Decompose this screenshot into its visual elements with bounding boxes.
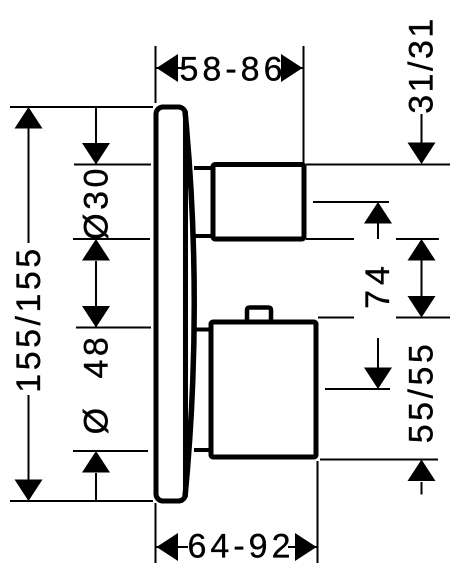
svg-text:Ø30: Ø30 — [78, 165, 116, 240]
svg-text:31/31: 31/31 — [403, 16, 441, 114]
svg-text:64-92: 64-92 — [188, 528, 295, 566]
svg-text:155/155: 155/155 — [10, 245, 48, 392]
svg-text:58-86: 58-86 — [180, 50, 287, 88]
svg-text:Ø 48: Ø 48 — [78, 334, 116, 435]
svg-text:55/55: 55/55 — [403, 341, 441, 444]
svg-text:74: 74 — [359, 261, 397, 309]
